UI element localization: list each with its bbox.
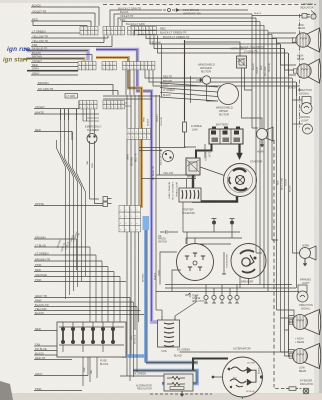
wire alternator bottom lead bbox=[242, 397, 244, 399]
wire main feed vertical x184 bbox=[184, 40, 186, 120]
wire distributor left leads bbox=[160, 252, 181, 292]
connector row B3 bbox=[123, 62, 127, 66]
connector row A3 bbox=[128, 27, 132, 31]
wire horiz bundle lower 1 bbox=[165, 284, 292, 286]
parking light bulb top bbox=[303, 124, 313, 134]
starter relay to starter wire bbox=[200, 167, 226, 176]
left fender indicator plug bbox=[252, 15, 302, 17]
r fender indicator plug bbox=[286, 388, 289, 390]
connector row A1 bbox=[80, 27, 84, 31]
wire breaker leads bbox=[240, 276, 249, 288]
fuse bus lines bbox=[59, 326, 124, 328]
wire lower bundle joins bbox=[260, 285, 264, 289]
emergency flasher leads bbox=[90, 141, 104, 204]
wire horiz bundle lower 3 bbox=[156, 291, 299, 293]
wire connector C links bbox=[125, 103, 131, 106]
lamp mounting blocks lower bbox=[289, 316, 295, 323]
coil box bbox=[158, 320, 180, 347]
fuse block box bbox=[57, 322, 126, 357]
low beam lamp bbox=[307, 28, 320, 52]
wire feed horiz to horn relay bbox=[185, 42, 241, 56]
wire dk green long bbox=[288, 52, 290, 54]
wires below fuse block bbox=[83, 357, 97, 386]
starter solenoid box bbox=[179, 188, 201, 202]
wire low beam feeds bbox=[268, 30, 296, 43]
wire stack-to-fuse verticals bbox=[95, 255, 97, 322]
starter motor bbox=[224, 164, 257, 197]
wire vertical bundle centre 1 bbox=[126, 95, 128, 128]
inline label box LT GRN bbox=[65, 94, 78, 99]
wire vertical x159 bbox=[159, 95, 161, 175]
parking light bulb lower bbox=[298, 285, 307, 292]
battery ground cable bbox=[238, 144, 240, 153]
wire bundle row B3 drop 2 bbox=[129, 70, 131, 95]
starter relay bbox=[186, 158, 200, 175]
paper shading top-left bbox=[0, 0, 322, 3]
wire battery feed left bbox=[185, 140, 197, 147]
wire bundle row B3 drop 1 bbox=[125, 70, 127, 95]
wire bundle row B3 drop 3 bbox=[133, 70, 135, 95]
highlight DK BLUE wire vertical bbox=[144, 218, 148, 363]
connector row A2 bbox=[103, 27, 107, 31]
battery box bbox=[212, 127, 216, 130]
connector row C1 bbox=[79, 101, 83, 105]
connector row D numbered blocks bbox=[127, 129, 131, 134]
wire vertical x161 loop edge bbox=[161, 44, 163, 97]
ignition resistor studs bbox=[212, 221, 216, 225]
wire WHITE mid to connector bbox=[90, 113, 99, 115]
flasher connector plug bbox=[103, 197, 108, 202]
handwritten arrow bbox=[24, 48, 29, 50]
wire direction signal feeds bbox=[293, 82, 303, 100]
battery cells bbox=[211, 131, 216, 135]
battery to starter relay cable bbox=[196, 144, 212, 158]
highlight DK BLUE loop bbox=[122, 356, 198, 384]
starter solenoid coil bbox=[182, 190, 199, 199]
dashed body line mid-right bbox=[273, 140, 275, 384]
wire left bundle tops bbox=[60, 109, 62, 120]
wiper motor bbox=[218, 84, 239, 105]
wire distributor feeds bbox=[187, 232, 203, 245]
wire engine bus lines bbox=[183, 232, 242, 244]
wire vertical bundle centre 2 bbox=[130, 95, 132, 128]
connector row B1 bbox=[78, 62, 82, 66]
fuses bbox=[61, 327, 65, 331]
bulkhead connector blue paint bbox=[143, 216, 150, 230]
distributor bbox=[177, 244, 214, 281]
regulator ground dashes bbox=[150, 393, 212, 395]
breaker bbox=[231, 244, 266, 279]
wire mid-right links bbox=[252, 128, 278, 253]
scan blot bottom-left corner bbox=[0, 381, 13, 400]
coil winding bbox=[164, 323, 174, 347]
wire vertical bundle centre 4 bbox=[138, 95, 140, 128]
connector row B2 bbox=[102, 62, 106, 66]
high beam lamp bbox=[308, 59, 320, 83]
alternator regulator box bbox=[164, 374, 193, 391]
low beam lamp lower bbox=[305, 344, 321, 369]
wire pinrowC to flasher bbox=[89, 109, 91, 134]
wire pinrowC drops bbox=[82, 109, 84, 121]
direction signal bulb top bbox=[302, 97, 311, 104]
backup lamp switch bbox=[163, 151, 174, 162]
highlight ign-start wire (BROWN) left segment bbox=[27, 59, 84, 62]
scan border bottom strip bbox=[0, 393, 322, 400]
temp gauge sender bbox=[185, 293, 190, 297]
bulkhead connector stack bbox=[119, 206, 124, 213]
highlight ign-run wire (DK BLUE-TR) left segment bbox=[27, 51, 88, 61]
horn upper bbox=[257, 129, 268, 140]
wire high beam feeds bbox=[281, 44, 297, 75]
oil pressure switch bbox=[160, 230, 172, 233]
wire ignition feed horizontal bbox=[139, 150, 162, 152]
wire left vertical bundle bbox=[57, 140, 66, 299]
wire vertical x190 wiper box edge bbox=[190, 76, 192, 103]
low brake warning switch bbox=[163, 9, 175, 12]
wire right vertical bundle bbox=[251, 14, 253, 128]
wire lower-right lamp verticals bbox=[280, 318, 282, 352]
wire vertical x156 bbox=[155, 95, 157, 310]
direction signal lamp lower bbox=[305, 310, 321, 335]
coil terminals bbox=[161, 316, 163, 320]
starter cable thick bbox=[193, 175, 237, 202]
wire loop B3 right b bbox=[149, 70, 296, 82]
wire yellow-black drop right bbox=[140, 311, 142, 331]
highlight ign-start wire right segment bbox=[96, 58, 142, 209]
emergency flasher bbox=[87, 134, 97, 144]
washer motor bbox=[202, 76, 210, 84]
wire dk blue inked bbox=[146, 230, 197, 363]
alternator bbox=[223, 357, 263, 397]
dash-dot body line top-right bbox=[299, 14, 301, 128]
scan border right grey strip bbox=[319, 0, 322, 400]
highlight ign-run wire right segment bbox=[96, 50, 160, 323]
wire horn relay drop bbox=[242, 68, 263, 128]
wire vertical bundle centre 3 bbox=[134, 95, 136, 128]
wire loop B3 right c bbox=[153, 70, 299, 86]
wire right-of-fuse verticals bbox=[129, 298, 131, 382]
wire horizontals below connector C bbox=[103, 95, 160, 97]
connector row C2 bbox=[103, 101, 107, 105]
dashed body outline top bbox=[103, 4, 316, 6]
wire horiz bundle lower 2 bbox=[165, 287, 296, 289]
terminal studs row bbox=[204, 295, 208, 299]
